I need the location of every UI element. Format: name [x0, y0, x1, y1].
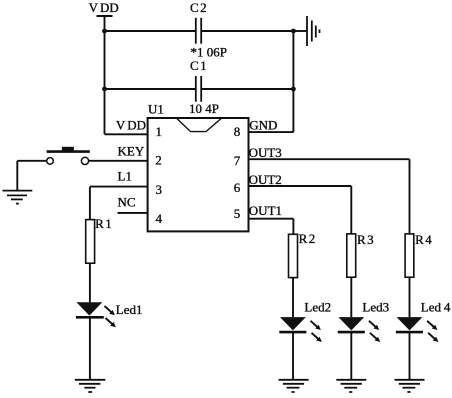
node junction C1-GND: [291, 87, 296, 92]
wire pin1 VDD to U1: [105, 133, 149, 135]
power symbol VDD: [97, 15, 113, 17]
svg-text:2: 2: [155, 152, 162, 167]
wire pin6 OUT2: [249, 185, 352, 187]
ground at Led1: [75, 380, 106, 392]
wire to top-right ground: [293, 30, 307, 32]
wire OUT2 vertical to R3: [350, 186, 352, 234]
wire C1 left: [105, 88, 196, 90]
svg-text:7: 7: [234, 153, 241, 168]
wire Led1 to ground: [89, 317, 91, 379]
LED Led1: [76, 302, 116, 327]
svg-text:C1: C1: [190, 58, 207, 73]
svg-text:KEY: KEY: [118, 144, 145, 159]
wire OUT1 vertical to R2: [292, 219, 294, 235]
svg-text:OUT2: OUT2: [249, 172, 282, 187]
node junction VDD-C1: [102, 87, 107, 92]
svg-text:4: 4: [156, 211, 163, 226]
LED Led2: [279, 317, 322, 342]
wire right vertical C2-C1-pin8: [292, 31, 294, 132]
svg-text:R4: R4: [415, 232, 432, 247]
resistor R1: [86, 220, 95, 264]
IC U1 body: [148, 118, 249, 231]
LED Led3: [338, 317, 381, 342]
svg-text:OUT3: OUT3: [249, 145, 282, 160]
svg-text:L1: L1: [118, 168, 132, 183]
node junction C2-GND: [291, 29, 296, 34]
wire pin8 GND: [249, 131, 294, 133]
svg-text:VDD: VDD: [89, 0, 119, 15]
push button S1: [47, 147, 90, 165]
capacitor C2: [196, 18, 201, 44]
svg-text:3: 3: [156, 182, 163, 197]
wire C2 left: [105, 30, 196, 32]
LED Led4: [396, 317, 439, 342]
ground at Led4: [395, 380, 425, 392]
wire R1 to Led1: [89, 263, 91, 302]
wire pin7 OUT3: [249, 158, 410, 160]
wire OUT3 vertical to R4: [409, 159, 411, 234]
svg-text:R1: R1: [95, 216, 112, 231]
svg-text:NC: NC: [118, 194, 136, 209]
wire VDD vertical: [104, 16, 106, 134]
wire button left vertical: [16, 161, 18, 191]
svg-text:C2: C2: [190, 0, 207, 15]
wire C2 right: [201, 30, 293, 32]
svg-text:Led4: Led4: [421, 300, 451, 315]
svg-text:8: 8: [234, 124, 241, 139]
wire C1 right: [201, 88, 293, 90]
ground at Led3: [336, 380, 366, 392]
svg-text:R2: R2: [299, 231, 316, 246]
resistor R3: [347, 234, 356, 277]
wire R4 to Led4: [409, 277, 411, 317]
svg-text:1: 1: [156, 124, 163, 139]
svg-text:5: 5: [234, 206, 241, 221]
svg-text:OUT1: OUT1: [249, 203, 282, 218]
svg-text:Led1: Led1: [116, 302, 143, 317]
svg-text:Led2: Led2: [304, 300, 331, 315]
wire Led3 to ground: [350, 332, 352, 379]
ground at button: [3, 191, 33, 204]
resistor R4: [405, 234, 414, 277]
capacitor C1: [196, 76, 201, 102]
wire pin3 down to R1: [89, 187, 91, 220]
wire pin2 KEY: [89, 160, 149, 162]
ground at Led2: [279, 380, 309, 392]
ground top right (rotated): [307, 16, 320, 46]
svg-text:6: 6: [234, 180, 241, 195]
svg-text:Led3: Led3: [362, 300, 389, 315]
wire R3 to Led3: [350, 277, 352, 317]
svg-text:U1: U1: [148, 101, 164, 116]
wire pin4 NC stub: [118, 212, 149, 214]
wire Led4 to ground: [409, 332, 411, 379]
resistor R2: [289, 234, 298, 277]
wire pin3 L1: [90, 186, 148, 188]
svg-text:GND: GND: [249, 118, 277, 133]
IC U1 notch: [177, 119, 221, 132]
wire R2 to Led2: [292, 278, 294, 318]
svg-text:10 4P: 10 4P: [189, 101, 219, 116]
wire Led2 to ground: [292, 332, 294, 379]
wire button left: [17, 160, 46, 162]
svg-text:R3: R3: [357, 232, 374, 247]
wire pin5 OUT1: [249, 218, 294, 220]
node junction VDD-C2: [102, 29, 107, 34]
svg-text:VDD: VDD: [116, 118, 146, 133]
